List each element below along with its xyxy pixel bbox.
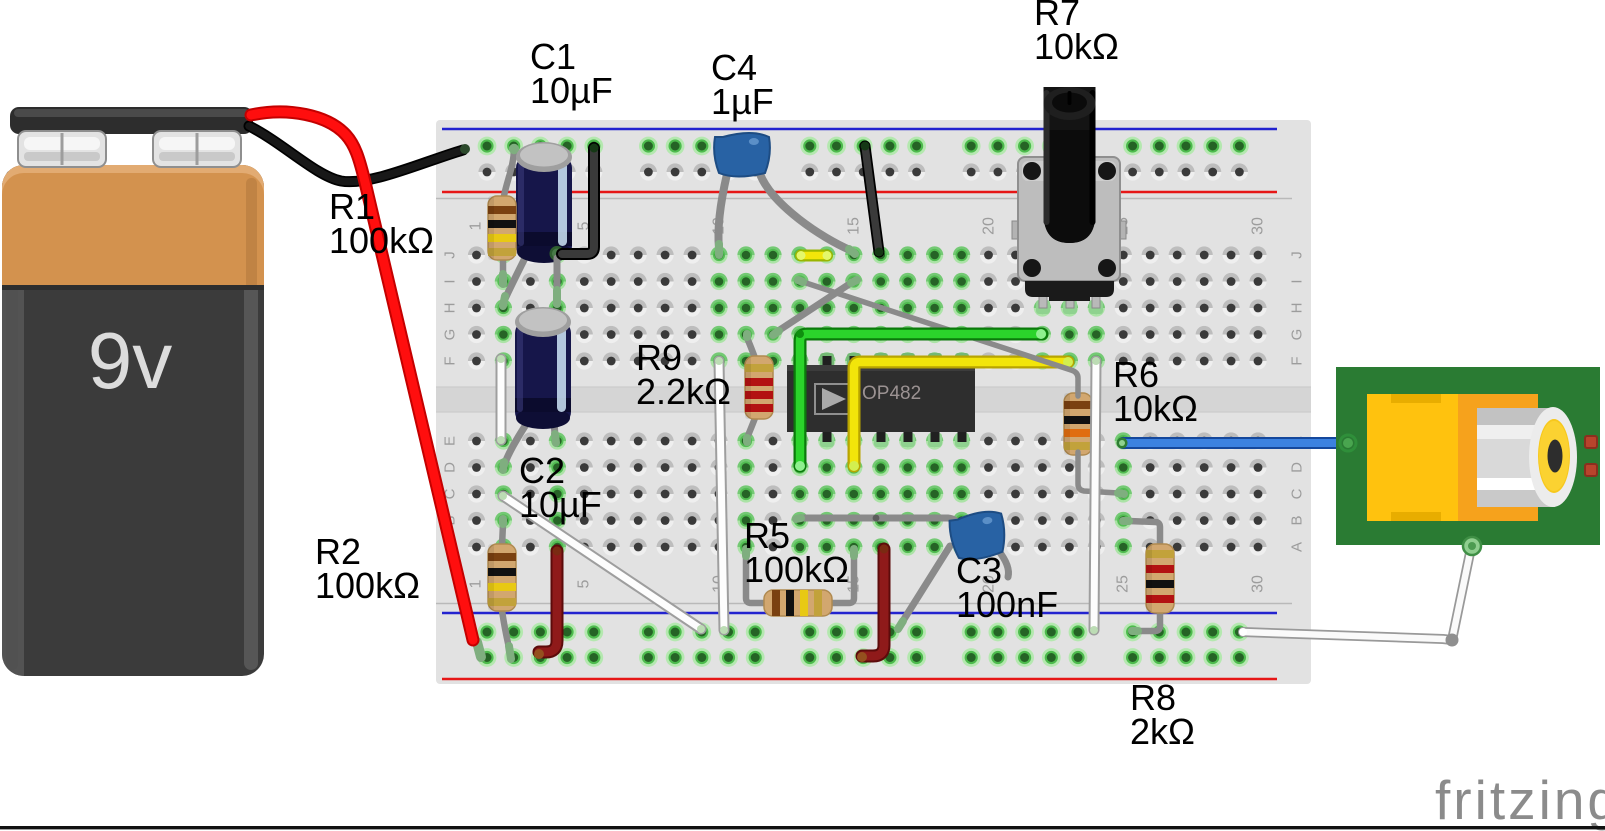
svg-text:10µF: 10µF <box>519 484 602 525</box>
svg-text:C: C <box>1289 488 1306 499</box>
svg-text:100kΩ: 100kΩ <box>744 549 849 590</box>
svg-text:2.2kΩ: 2.2kΩ <box>636 371 731 412</box>
svg-text:10µF: 10µF <box>530 70 613 111</box>
svg-text:5: 5 <box>576 579 593 588</box>
svg-text:J: J <box>1289 251 1306 259</box>
svg-text:I: I <box>442 279 459 283</box>
svg-text:F: F <box>442 356 459 365</box>
svg-text:30: 30 <box>1250 575 1267 593</box>
svg-text:B: B <box>1289 515 1306 525</box>
svg-text:1: 1 <box>468 579 485 588</box>
svg-text:OP482: OP482 <box>862 383 921 404</box>
svg-text:H: H <box>1289 303 1306 314</box>
svg-text:D: D <box>1289 462 1306 473</box>
svg-text:G: G <box>1289 329 1306 341</box>
svg-text:I: I <box>1289 279 1306 283</box>
svg-text:20: 20 <box>981 217 998 235</box>
svg-text:100kΩ: 100kΩ <box>329 220 434 261</box>
svg-text:A: A <box>1289 542 1306 552</box>
svg-text:G: G <box>442 329 459 341</box>
svg-text:100kΩ: 100kΩ <box>315 565 420 606</box>
svg-text:9v: 9v <box>88 316 173 405</box>
svg-text:H: H <box>442 303 459 314</box>
svg-text:30: 30 <box>1250 217 1267 235</box>
svg-text:25: 25 <box>1115 575 1132 593</box>
svg-text:1: 1 <box>468 221 485 230</box>
svg-text:15: 15 <box>846 217 863 235</box>
svg-text:10kΩ: 10kΩ <box>1034 26 1119 67</box>
svg-text:2kΩ: 2kΩ <box>1130 711 1195 752</box>
svg-text:J: J <box>442 251 459 259</box>
svg-text:F: F <box>1289 356 1306 365</box>
svg-text:10kΩ: 10kΩ <box>1113 388 1198 429</box>
svg-text:100nF: 100nF <box>956 584 1058 625</box>
svg-text:1µF: 1µF <box>711 81 774 122</box>
svg-text:E: E <box>442 436 459 446</box>
svg-text:D: D <box>442 462 459 473</box>
svg-text:fritzing: fritzing <box>1435 769 1605 831</box>
